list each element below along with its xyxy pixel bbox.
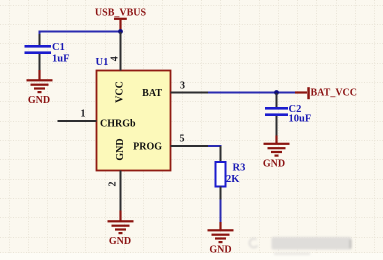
svg-text:5: 5 — [180, 134, 185, 145]
svg-text:4: 4 — [110, 56, 121, 61]
ground GND under R3 — [208, 222, 234, 256]
svg-text:GND: GND — [109, 236, 131, 247]
IC U1 — [96, 57, 171, 171]
svg-text:3: 3 — [180, 81, 185, 92]
svg-text:BAT: BAT — [142, 88, 162, 99]
junction BAT net — [274, 90, 279, 95]
svg-text:2: 2 — [107, 182, 118, 187]
svg-text:1: 1 — [81, 109, 86, 120]
resistor R3 — [216, 146, 246, 200]
svg-text:R3: R3 — [233, 163, 246, 174]
svg-text:GND: GND — [28, 95, 50, 106]
power port USB_VBUS — [95, 8, 147, 32]
svg-text:U1: U1 — [96, 57, 109, 68]
ground GND under C1 — [27, 70, 53, 106]
svg-text:PROG: PROG — [133, 142, 162, 153]
svg-text:2K: 2K — [226, 174, 240, 185]
svg-text:CHRGb: CHRGb — [100, 119, 136, 130]
pin 4 (VCC) — [110, 32, 126, 103]
wire BAT net — [208, 92, 295, 94]
svg-text:GND: GND — [115, 138, 126, 160]
pin 1 (CHRGb) — [58, 109, 137, 130]
svg-text:GND: GND — [263, 159, 285, 170]
svg-text:10uF: 10uF — [289, 114, 312, 125]
wire R3 to GND — [220, 200, 222, 223]
pin 3 (BAT) — [142, 81, 208, 100]
capacitor C2 — [265, 93, 311, 136]
ground GND under pin 2 — [108, 211, 134, 248]
svg-text:C1: C1 — [52, 42, 65, 53]
wire PROG net — [208, 145, 222, 147]
svg-text:BAT_VCC: BAT_VCC — [311, 88, 357, 99]
capacitor C1 — [25, 34, 70, 72]
junction on USB_VBUS node — [118, 29, 123, 34]
watermark — [249, 237, 351, 255]
wire C1 to pin4 junction — [40, 32, 121, 46]
power port BAT_VCC — [295, 87, 357, 99]
pin 5 (PROG) — [133, 134, 208, 153]
svg-text:VCC: VCC — [115, 81, 126, 103]
ground GND under C2 — [263, 136, 290, 170]
pin 2 (GND) — [107, 138, 125, 210]
svg-text:1uF: 1uF — [52, 54, 70, 65]
svg-text:USB_VBUS: USB_VBUS — [95, 8, 147, 19]
